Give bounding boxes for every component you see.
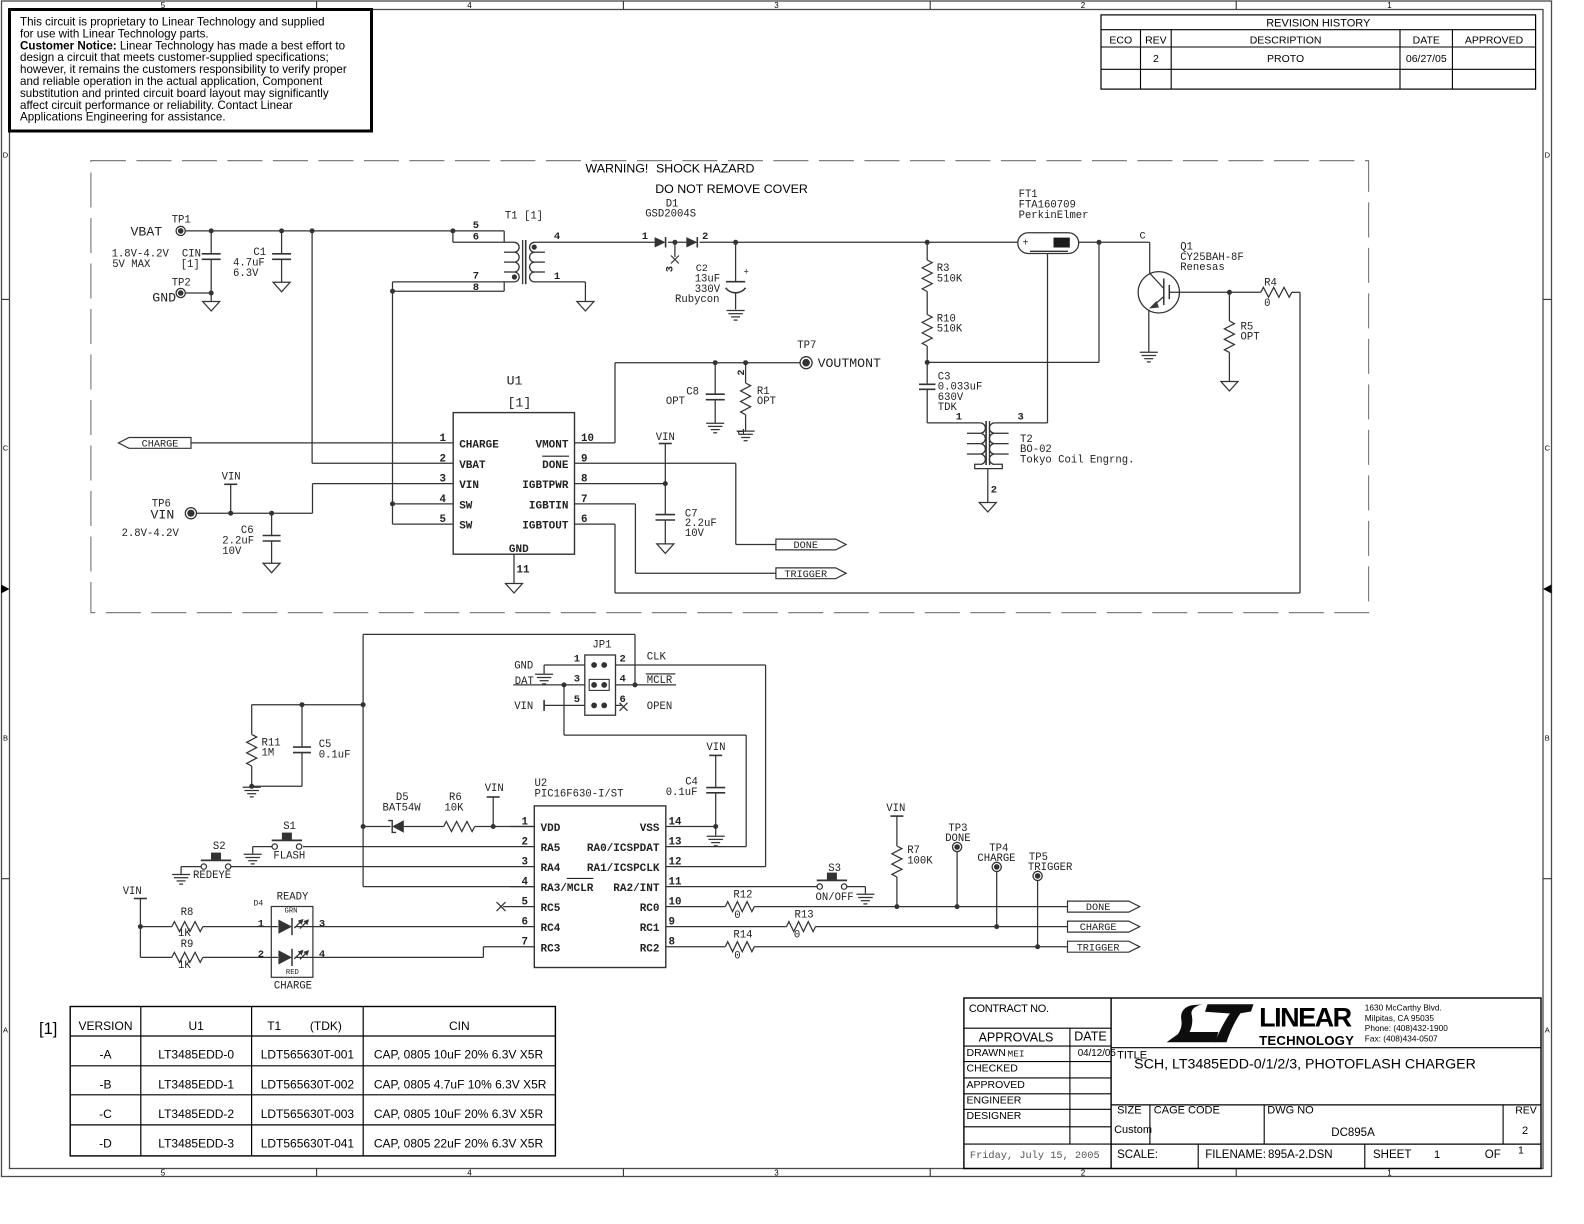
svg-text:9: 9 [581, 453, 587, 465]
svg-text:2: 2 [1081, 1168, 1086, 1177]
svg-text:R8: R8 [181, 907, 194, 919]
svg-text:1: 1 [956, 412, 962, 424]
svg-text:OF: OF [1485, 1149, 1501, 1161]
svg-text:1M: 1M [262, 748, 275, 760]
svg-text:VBAT: VBAT [459, 460, 486, 472]
svg-text:2: 2 [702, 231, 708, 243]
svg-text:6: 6 [473, 232, 479, 244]
svg-text:3: 3 [319, 918, 325, 930]
svg-text:6: 6 [522, 916, 528, 928]
svg-text:8: 8 [581, 474, 587, 486]
svg-text:LDT565630T-003: LDT565630T-003 [261, 1107, 355, 1121]
svg-text:CAP, 0805 10uF 20% 6.3V X5R: CAP, 0805 10uF 20% 6.3V X5R [374, 1107, 544, 1121]
svg-text:RA4: RA4 [541, 863, 561, 875]
svg-text:C8: C8 [686, 386, 699, 398]
svg-text:7: 7 [522, 937, 528, 949]
svg-text:A: A [3, 1026, 8, 1035]
svg-text:1: 1 [1387, 1, 1392, 10]
svg-text:MEI: MEI [1008, 1049, 1025, 1060]
svg-text:6.3V: 6.3V [233, 268, 259, 280]
svg-text:S1: S1 [283, 821, 296, 833]
svg-text:A: A [1545, 1026, 1550, 1035]
svg-text:Fax: (408)434-0507: Fax: (408)434-0507 [1365, 1033, 1438, 1043]
svg-text:5: 5 [161, 1168, 166, 1177]
svg-text:FILENAME:: FILENAME: [1205, 1149, 1266, 1161]
svg-text:RED: RED [286, 969, 299, 977]
svg-text:3: 3 [522, 856, 528, 868]
svg-text:2: 2 [991, 484, 997, 496]
svg-text:D4: D4 [254, 900, 264, 909]
svg-text:1: 1 [554, 271, 560, 283]
svg-text:RC3: RC3 [541, 943, 561, 955]
svg-text:CIN: CIN [449, 1019, 470, 1033]
svg-text:CHARGE: CHARGE [459, 440, 499, 452]
svg-text:12: 12 [669, 856, 682, 868]
svg-text:SW: SW [459, 501, 473, 513]
svg-text:APPROVALS: APPROVALS [979, 1030, 1054, 1044]
svg-text:FLASH: FLASH [273, 851, 305, 863]
svg-text:0: 0 [734, 910, 740, 922]
svg-text:T1 [1]: T1 [1] [505, 210, 543, 222]
svg-text:GSD2004S: GSD2004S [645, 209, 696, 221]
svg-text:OPEN: OPEN [647, 701, 672, 713]
svg-text:REV: REV [1145, 34, 1167, 46]
svg-text:RA2/INT: RA2/INT [613, 883, 660, 895]
svg-text:5: 5 [574, 694, 580, 706]
svg-text:8: 8 [669, 937, 675, 949]
svg-text:LT3485EDD-1: LT3485EDD-1 [158, 1078, 234, 1092]
svg-text:B: B [3, 734, 8, 743]
svg-text:REV: REV [1515, 1105, 1537, 1117]
svg-text:2: 2 [522, 836, 528, 848]
svg-text:WARNING!: WARNING! [586, 161, 649, 175]
svg-text:DESCRIPTION: DESCRIPTION [1250, 34, 1322, 46]
svg-text:ECO: ECO [1109, 34, 1132, 46]
svg-text:RA3/MCLR: RA3/MCLR [541, 883, 594, 895]
svg-text:DO NOT REMOVE COVER: DO NOT REMOVE COVER [655, 182, 808, 196]
svg-text:CONTRACT NO.: CONTRACT NO. [969, 1003, 1049, 1015]
svg-text:SCALE:: SCALE: [1117, 1149, 1158, 1161]
svg-text:TP1: TP1 [172, 214, 191, 226]
svg-text:GND: GND [152, 291, 176, 306]
svg-text:3: 3 [774, 1, 779, 10]
svg-text:Tokyo Coil Engrng.: Tokyo Coil Engrng. [1020, 455, 1134, 467]
svg-text:RC4: RC4 [541, 923, 561, 935]
svg-text:DONE: DONE [794, 541, 818, 552]
svg-text:1: 1 [574, 654, 580, 666]
svg-text:14: 14 [669, 816, 682, 828]
svg-text:R12: R12 [733, 889, 752, 901]
svg-text:VIN: VIN [706, 742, 725, 754]
svg-text:10V: 10V [222, 546, 242, 558]
svg-text:-C: -C [99, 1107, 112, 1121]
svg-text:DWG NO: DWG NO [1267, 1105, 1314, 1117]
svg-text:4: 4 [620, 673, 626, 685]
svg-text:Custom: Custom [1114, 1124, 1152, 1136]
svg-text:3: 3 [574, 673, 580, 685]
svg-text:510K: 510K [937, 274, 963, 286]
svg-text:2: 2 [1153, 53, 1159, 65]
svg-text:4: 4 [319, 949, 325, 961]
svg-text:T1: T1 [267, 1019, 281, 1033]
svg-text:RA1/ICSPCLK: RA1/ICSPCLK [587, 863, 660, 875]
svg-text:SHEET: SHEET [1373, 1149, 1411, 1161]
svg-text:10: 10 [581, 433, 594, 445]
svg-text:R4: R4 [1264, 277, 1277, 289]
svg-text:9: 9 [669, 916, 675, 928]
svg-text:TRIGGER: TRIGGER [784, 570, 827, 581]
svg-text:GND: GND [514, 660, 533, 672]
svg-text:DATE: DATE [1074, 1030, 1106, 1044]
svg-text:Milpitas, CA 95035: Milpitas, CA 95035 [1365, 1013, 1435, 1023]
svg-text:C: C [1545, 444, 1551, 453]
svg-text:4: 4 [522, 876, 529, 888]
svg-text:SCH, LT3485EDD-0/1/2/3, PHOTOF: SCH, LT3485EDD-0/1/2/3, PHOTOFLASH CHARG… [1134, 1057, 1476, 1073]
svg-text:1: 1 [1518, 1145, 1524, 1157]
svg-text:BAT54W: BAT54W [383, 802, 422, 814]
svg-text:CHECKED: CHECKED [967, 1063, 1019, 1075]
svg-text:DESIGNER: DESIGNER [967, 1110, 1022, 1122]
svg-text:LDT565630T-002: LDT565630T-002 [261, 1078, 355, 1092]
svg-text:4: 4 [467, 1168, 472, 1177]
svg-text:04/12/05: 04/12/05 [1078, 1048, 1117, 1059]
svg-text:8: 8 [473, 282, 479, 294]
svg-text:VIN: VIN [886, 803, 905, 815]
svg-text:0: 0 [734, 951, 740, 963]
svg-text:CHARGE: CHARGE [1080, 923, 1117, 934]
svg-text:R14: R14 [733, 930, 752, 942]
svg-text:VIN: VIN [151, 508, 175, 523]
svg-text:VIN: VIN [459, 480, 479, 492]
svg-text:DONE: DONE [1086, 903, 1110, 914]
svg-text:4: 4 [554, 231, 560, 243]
svg-text:CAP, 0805 22uF 20% 6.3V X5R: CAP, 0805 22uF 20% 6.3V X5R [374, 1137, 544, 1151]
svg-text:VIN: VIN [514, 701, 533, 713]
svg-text:11: 11 [669, 876, 682, 888]
svg-text:1: 1 [440, 433, 447, 445]
svg-text:100K: 100K [907, 855, 933, 867]
svg-text:CAGE CODE: CAGE CODE [1154, 1105, 1220, 1117]
svg-text:PROTO: PROTO [1267, 53, 1304, 65]
svg-text:IGBTIN: IGBTIN [529, 501, 569, 513]
svg-text:R9: R9 [181, 939, 194, 951]
svg-text:2: 2 [258, 949, 264, 961]
svg-text:3: 3 [440, 474, 446, 486]
svg-text:RA0/ICSPDAT: RA0/ICSPDAT [587, 843, 660, 855]
svg-text:VIN: VIN [123, 886, 142, 898]
svg-text:DONE: DONE [542, 460, 569, 472]
svg-text:5: 5 [522, 896, 528, 908]
svg-text:2: 2 [737, 369, 748, 375]
svg-text:REVISION HISTORY: REVISION HISTORY [1266, 17, 1371, 29]
svg-text:895A-2.DSN: 895A-2.DSN [1268, 1149, 1333, 1161]
svg-text:VSS: VSS [640, 823, 660, 835]
svg-text:(TDK): (TDK) [310, 1019, 342, 1033]
svg-text:C: C [1140, 232, 1146, 243]
svg-text:DRAWN: DRAWN [967, 1047, 1006, 1059]
svg-text:SIZE: SIZE [1117, 1105, 1141, 1117]
svg-text:DAT: DAT [515, 676, 534, 688]
svg-text:SW: SW [459, 521, 473, 533]
svg-text:1: 1 [1387, 1168, 1392, 1177]
svg-text:LDT565630T-041: LDT565630T-041 [261, 1137, 355, 1151]
svg-text:11: 11 [517, 565, 530, 577]
svg-text:LT3485EDD-0: LT3485EDD-0 [158, 1048, 234, 1062]
svg-text:Renesas: Renesas [1180, 262, 1225, 274]
svg-text:REDEYE: REDEYE [193, 870, 231, 882]
svg-text:13: 13 [669, 836, 682, 848]
svg-text:C: C [3, 444, 9, 453]
svg-text:PerkinElmer: PerkinElmer [1019, 210, 1089, 222]
svg-text:TDK: TDK [938, 402, 958, 414]
svg-text:CAP, 0805 10uF 20% 6.3V X5R: CAP, 0805 10uF 20% 6.3V X5R [374, 1048, 544, 1062]
svg-text:DC895A: DC895A [1331, 1127, 1375, 1139]
svg-text:5: 5 [473, 220, 479, 232]
svg-text:VIN: VIN [485, 783, 504, 795]
svg-text:LDT565630T-001: LDT565630T-001 [261, 1048, 355, 1062]
svg-text:1: 1 [1434, 1149, 1440, 1161]
svg-text:VIN: VIN [656, 432, 675, 444]
svg-text:LT3485EDD-3: LT3485EDD-3 [158, 1137, 234, 1151]
svg-text:3: 3 [664, 266, 676, 272]
svg-text:Friday, July 15, 2005: Friday, July 15, 2005 [970, 1150, 1100, 1162]
svg-text:VMONT: VMONT [535, 440, 568, 452]
svg-text:RC0: RC0 [640, 903, 660, 915]
svg-text:VOUTMONT: VOUTMONT [818, 356, 881, 371]
svg-text:10K: 10K [444, 802, 464, 814]
svg-text:TP2: TP2 [172, 278, 191, 290]
svg-text:RA5: RA5 [541, 843, 561, 855]
svg-text:R13: R13 [795, 910, 814, 922]
svg-text:5V MAX: 5V MAX [112, 259, 151, 271]
svg-text:S2: S2 [213, 841, 226, 853]
svg-text:D: D [3, 151, 9, 160]
svg-text:1630 McCarthy Blvd.: 1630 McCarthy Blvd. [1365, 1003, 1442, 1013]
svg-text:3: 3 [1018, 412, 1024, 424]
svg-text:10V: 10V [685, 528, 705, 540]
svg-text:PIC16F630-I/ST: PIC16F630-I/ST [535, 788, 624, 800]
svg-text:CHARGE: CHARGE [977, 853, 1015, 865]
svg-text:2: 2 [440, 453, 446, 465]
svg-text:1: 1 [258, 918, 264, 930]
svg-text:2.8V-4.2V: 2.8V-4.2V [122, 528, 180, 540]
svg-text:Applications Engineering for a: Applications Engineering for assistance. [20, 111, 226, 124]
svg-text:READY: READY [277, 892, 309, 904]
svg-text:DATE: DATE [1413, 34, 1440, 46]
svg-text:7: 7 [581, 494, 587, 506]
svg-text:DONE: DONE [945, 833, 970, 845]
svg-text:[1]: [1] [508, 396, 532, 411]
svg-text:5: 5 [440, 514, 446, 526]
svg-text:OPT: OPT [1241, 332, 1260, 344]
svg-text:CAP, 0805 4.7uF 10% 6.3V X5R: CAP, 0805 4.7uF 10% 6.3V X5R [374, 1078, 547, 1092]
svg-text:2: 2 [1081, 1, 1086, 10]
svg-text:TRIGGER: TRIGGER [1028, 862, 1073, 874]
svg-text:Phone: (408)432-1900: Phone: (408)432-1900 [1365, 1023, 1448, 1033]
svg-text:VBAT: VBAT [131, 224, 163, 239]
svg-text:2: 2 [1522, 1125, 1528, 1137]
svg-text:JP1: JP1 [592, 639, 611, 651]
svg-text:06/27/05: 06/27/05 [1406, 53, 1447, 65]
svg-text:ON/OFF: ON/OFF [816, 892, 854, 904]
svg-text:4: 4 [467, 1, 472, 10]
svg-text:TP7: TP7 [797, 340, 816, 352]
svg-text:-A: -A [100, 1048, 112, 1062]
svg-text:OPT: OPT [757, 396, 776, 408]
svg-text:ENGINEER: ENGINEER [967, 1095, 1022, 1107]
svg-text:RC2: RC2 [640, 943, 660, 955]
svg-text:0: 0 [794, 930, 800, 942]
svg-text:D: D [1545, 151, 1551, 160]
svg-text:510K: 510K [937, 324, 963, 336]
svg-text:LT3485EDD-2: LT3485EDD-2 [158, 1107, 234, 1121]
svg-text:VERSION: VERSION [78, 1019, 132, 1033]
svg-text:-B: -B [100, 1078, 112, 1092]
svg-text:1: 1 [522, 816, 529, 828]
svg-text:VIN: VIN [222, 472, 241, 484]
svg-text:SHOCK HAZARD: SHOCK HAZARD [656, 161, 754, 175]
svg-text:[1]: [1] [39, 1020, 57, 1038]
svg-text:OPT: OPT [666, 396, 685, 408]
svg-text:GND: GND [509, 544, 529, 556]
svg-text:U1: U1 [507, 373, 523, 388]
svg-text:RC1: RC1 [640, 923, 660, 935]
svg-text:+: + [744, 268, 749, 278]
svg-text:VDD: VDD [541, 823, 561, 835]
svg-text:0.1uF: 0.1uF [319, 749, 351, 761]
svg-text:6: 6 [581, 514, 587, 526]
svg-text:Rubycon: Rubycon [675, 294, 720, 306]
svg-text:CLK: CLK [647, 651, 667, 663]
svg-text:2: 2 [620, 654, 626, 666]
svg-text:IGBTPWR: IGBTPWR [522, 480, 569, 492]
svg-text:APPROVED: APPROVED [967, 1079, 1026, 1091]
svg-text:CHARGE: CHARGE [142, 440, 179, 451]
svg-text:GRN: GRN [285, 907, 298, 915]
svg-text:1: 1 [642, 231, 648, 243]
svg-text:[1]: [1] [181, 259, 200, 271]
svg-text:+: + [1023, 239, 1029, 250]
svg-text:APPROVED: APPROVED [1465, 34, 1524, 46]
svg-text:TECHNOLOGY: TECHNOLOGY [1259, 1033, 1354, 1048]
svg-text:0.1uF: 0.1uF [666, 787, 698, 799]
svg-text:B: B [1545, 734, 1550, 743]
svg-text:10: 10 [669, 896, 682, 908]
svg-text:U1: U1 [189, 1019, 205, 1033]
svg-text:-D: -D [99, 1137, 112, 1151]
svg-text:3: 3 [774, 1168, 779, 1177]
svg-text:7: 7 [473, 270, 479, 282]
svg-text:TRIGGER: TRIGGER [1077, 943, 1120, 954]
svg-text:CHARGE: CHARGE [274, 980, 312, 992]
svg-text:RC5: RC5 [541, 903, 561, 915]
svg-text:LINEAR: LINEAR [1259, 1003, 1352, 1033]
svg-text:0: 0 [1264, 298, 1270, 310]
svg-text:IGBTOUT: IGBTOUT [522, 521, 569, 533]
svg-text:4: 4 [440, 494, 447, 506]
